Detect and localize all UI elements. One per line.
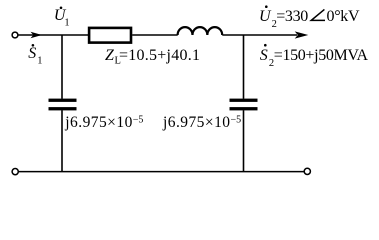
label ZL value xyxy=(105,47,200,67)
svg-text:j6.975×10−5: j6.975×10−5 xyxy=(162,114,241,131)
svg-text:S: S xyxy=(260,47,268,64)
terminal T2 (bottom-left) xyxy=(12,169,18,175)
svg-text:Z: Z xyxy=(105,47,115,64)
svg-text:S: S xyxy=(28,45,36,62)
label U2 value xyxy=(259,5,360,29)
bottom rail wire xyxy=(19,171,305,173)
wire (C1 to bottom rail) xyxy=(61,110,63,171)
arrow S1 direction xyxy=(31,32,43,39)
svg-text:1: 1 xyxy=(64,18,69,29)
svg-text:0°kV: 0°kV xyxy=(327,8,360,25)
label U1 xyxy=(54,7,70,29)
svg-text:=10.5+j40.1: =10.5+j40.1 xyxy=(119,47,200,64)
svg-text:U: U xyxy=(259,8,272,25)
wire (junction down to C2) xyxy=(243,35,245,99)
svg-text:=330: =330 xyxy=(276,8,308,25)
terminal T3 (bottom-right) xyxy=(304,168,310,174)
resistor ZL box xyxy=(89,28,131,43)
wire (top-left to resistor) xyxy=(18,34,88,36)
wire (junction down to C1) xyxy=(61,35,63,99)
svg-text:j6.975×10−5: j6.975×10−5 xyxy=(64,114,143,131)
capacitor C2 top plate xyxy=(230,99,258,102)
capacitor C2 bottom plate xyxy=(230,107,258,110)
label S2 value xyxy=(260,44,369,69)
svg-text:=150+j50MVA: =150+j50MVA xyxy=(274,47,369,64)
inductor L1 xyxy=(178,27,223,35)
svg-text:1: 1 xyxy=(37,56,42,67)
wire (resistor to inductor) xyxy=(132,34,178,36)
wire (inductor to output, with arrow) xyxy=(222,34,297,36)
capacitor C1 bottom plate xyxy=(49,107,77,110)
arrow S2 direction xyxy=(295,31,309,38)
wire (C2 to bottom rail) xyxy=(243,110,245,171)
capacitor C1 top plate xyxy=(49,99,77,102)
terminal T1 (top-left) xyxy=(12,32,18,38)
label S1 xyxy=(28,44,42,67)
